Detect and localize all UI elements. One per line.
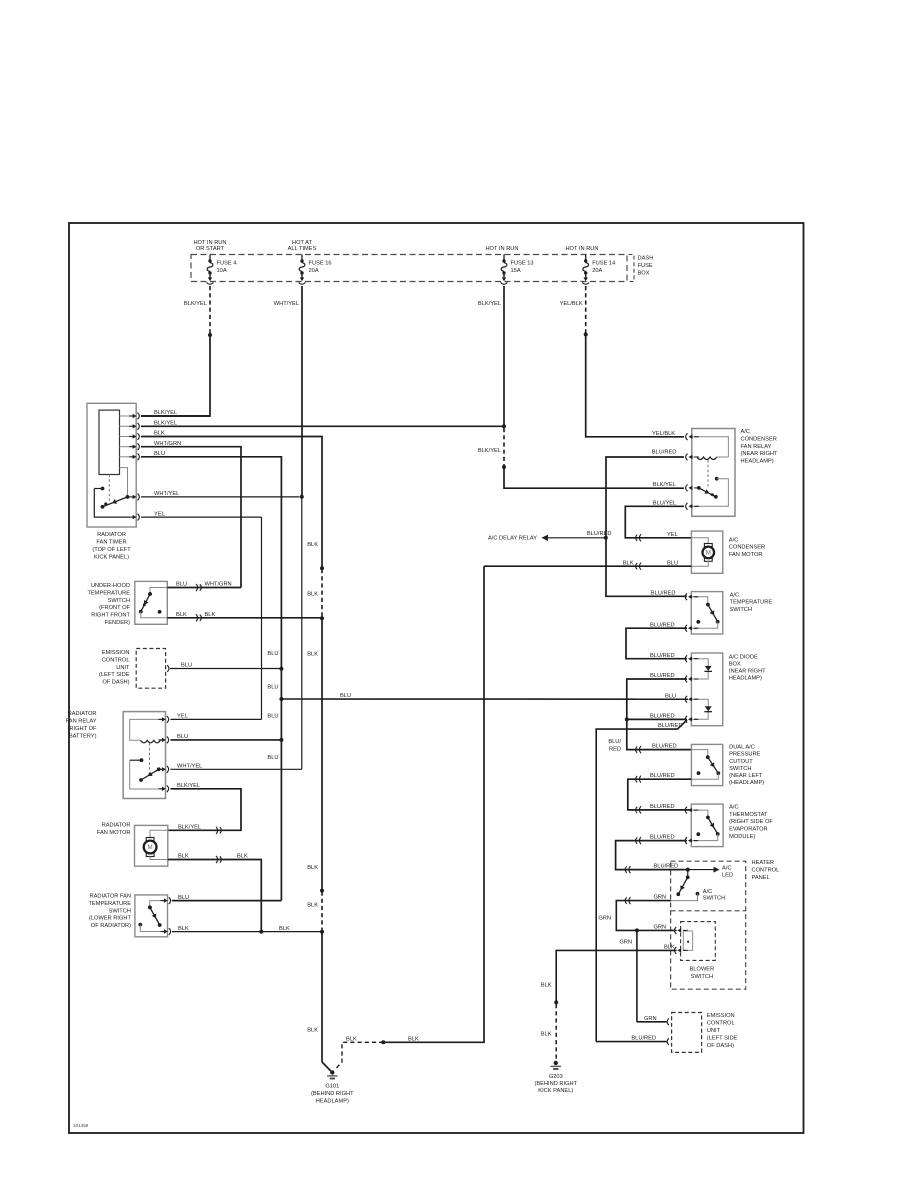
internal wire pin2 (691, 622, 717, 628)
wire BLU/RED to dual pressure switch (627, 719, 692, 749)
wire WHT/GRN pin4 down (141, 447, 241, 588)
svg-text:HEADLAMP): HEADLAMP) (729, 676, 762, 682)
svg-text:TEMPERATURE: TEMPERATURE (87, 590, 130, 596)
svg-text:FUSE 16: FUSE 16 (309, 261, 332, 267)
relay actuator dashed (149, 743, 151, 771)
A/C relay actuator dashed (707, 460, 709, 488)
internal wire (691, 750, 707, 756)
svg-text:OR START: OR START (196, 246, 225, 252)
relay coil (141, 740, 161, 743)
arrow to A/C LED (714, 867, 720, 873)
connector in GRN wire (625, 897, 630, 904)
wire BLU/RED relay pin2 to A/C temperature switch (606, 457, 687, 596)
svg-text:BLK/YEL: BLK/YEL (178, 825, 201, 831)
svg-text:BLK/YEL: BLK/YEL (478, 301, 501, 307)
junction WHT/YEL (300, 495, 304, 499)
dashed wire BLK to G101 (335, 1042, 384, 1070)
wire GRN to blower switch (637, 929, 677, 931)
svg-text:RADIATOR: RADIATOR (102, 823, 131, 829)
diode2 internal wire (691, 699, 708, 719)
radiator fan timer box (87, 403, 136, 527)
timer pin 4 (129, 443, 139, 450)
svg-text:WHT/GRN: WHT/GRN (154, 441, 181, 447)
svg-text:BLU/RED: BLU/RED (651, 590, 676, 596)
A/C temperature switch box (691, 592, 723, 634)
junction BLU to diode box (279, 697, 283, 701)
junction A/C LED tap (686, 868, 690, 872)
under-hood switch blade (139, 592, 152, 613)
fan relay pin 3 (159, 766, 169, 773)
svg-text:BOX: BOX (638, 270, 650, 276)
timer inner module (99, 410, 120, 474)
svg-text:HOT AT: HOT AT (292, 240, 313, 246)
svg-text:G203: G203 (549, 1074, 563, 1080)
svg-text:RADIATOR FAN: RADIATOR FAN (89, 894, 131, 900)
relay contact stub (130, 759, 140, 761)
arrow to A/C DELAY RELAY (542, 535, 549, 541)
svg-text:WHT/YEL: WHT/YEL (177, 764, 202, 770)
wire YEL/BLK dashed from fuse 14 (585, 286, 587, 333)
wire BLU/RED thermostat to heater panel (616, 841, 687, 870)
blower switch element (683, 931, 692, 950)
timer pin 1 (129, 413, 139, 420)
svg-text:15A: 15A (511, 268, 521, 274)
contact dot (138, 923, 142, 927)
svg-text:BLU: BLU (267, 755, 278, 761)
svg-text:GRN: GRN (654, 925, 667, 931)
wire BLK from fan motor (168, 860, 261, 932)
svg-text:EMISSION: EMISSION (102, 650, 130, 656)
svg-text:EVAPORATOR: EVAPORATOR (729, 827, 768, 833)
A/C relay pin 4 (686, 503, 699, 510)
connector (625, 866, 630, 873)
svg-text:BLU/YEL: BLU/YEL (653, 501, 676, 507)
svg-text:BLK: BLK (307, 542, 318, 548)
svg-text:HOT IN RUN: HOT IN RUN (565, 246, 598, 252)
A/C relay switch blade (697, 486, 718, 499)
svg-text:BLK: BLK (205, 612, 216, 618)
svg-text:PANEL: PANEL (752, 875, 770, 881)
svg-text:20A: 20A (592, 268, 602, 274)
svg-text:SWITCH: SWITCH (691, 974, 713, 980)
svg-text:RIGHT FRONT: RIGHT FRONT (91, 613, 130, 619)
wire GRN A/C switch out (616, 901, 671, 931)
svg-text:FENDER): FENDER) (105, 620, 130, 626)
svg-text:BLU: BLU (154, 451, 165, 457)
svg-text:OF DASH): OF DASH) (102, 680, 129, 686)
internal wire (691, 810, 708, 816)
svg-text:(NEAR RIGHT: (NEAR RIGHT (741, 451, 778, 457)
ECU1 pin cup (167, 665, 169, 672)
svg-text:CONDENSER: CONDENSER (729, 545, 765, 551)
svg-text:BLU/RED: BLU/RED (631, 1035, 656, 1041)
heater panel divider (dashed) (671, 910, 746, 912)
A/C switch contact (696, 892, 700, 896)
svg-text:SWITCH: SWITCH (108, 598, 130, 604)
svg-text:RED: RED (609, 747, 621, 753)
wire GRN into ECU (637, 1021, 667, 1023)
svg-text:BLU/RED: BLU/RED (650, 673, 675, 679)
svg-text:(RIGHT OF: (RIGHT OF (68, 726, 97, 732)
svg-text:BLK: BLK (307, 903, 318, 909)
wire BLU from trunk to A/C diode box pin3 (281, 698, 688, 700)
svg-text:MODULE): MODULE) (729, 834, 755, 840)
svg-text:(LEFT SIDE: (LEFT SIDE (99, 672, 130, 678)
wire BLU/RED to diode pin4 (627, 718, 687, 720)
wire BLK/YEL fuse4 to timer pin1 (141, 335, 210, 416)
svg-text:BLK: BLK (541, 983, 552, 989)
wire YEL pin7 (141, 516, 262, 518)
wire BLU/WHT-GRN from under-hood switch (167, 587, 241, 589)
wire BLK/YEL to A/C condenser fan relay pin3 (504, 467, 684, 488)
svg-text:HEADLAMP): HEADLAMP) (741, 459, 774, 465)
svg-text:BLU/: BLU/ (608, 739, 621, 745)
A/C relay pin 2 (686, 454, 699, 461)
svg-text:(LOWER RIGHT: (LOWER RIGHT (89, 916, 132, 922)
relay internal pin4 (692, 479, 729, 507)
fuse F4 10A (209, 255, 211, 260)
svg-text:BLU: BLU (177, 734, 188, 740)
svg-text:GRN: GRN (619, 939, 632, 945)
svg-text:BLK: BLK (307, 865, 318, 871)
ECU2 pin cups (667, 1019, 669, 1026)
svg-text:A/C DIODE: A/C DIODE (729, 655, 758, 661)
timer pin 3 (129, 433, 139, 440)
wire BLK dashed to G203 (555, 1004, 557, 1059)
svg-text:BLU: BLU (667, 560, 678, 566)
timer internal wires (120, 415, 131, 417)
diode D1 (704, 666, 712, 672)
diode box pin 1 (685, 655, 698, 662)
svg-text:UNIT: UNIT (707, 1028, 721, 1034)
A/C temp switch pin2 (685, 625, 698, 632)
svg-text:ALL TIMES: ALL TIMES (288, 246, 317, 252)
radiator fan motor symbol M (144, 838, 157, 857)
wire WHT/YEL relay pin3 (171, 768, 302, 770)
svg-text:THERMOSTAT: THERMOSTAT (729, 812, 768, 818)
wire BLU/RED diode pin4 to emission control unit (596, 720, 687, 1042)
svg-text:A/C: A/C (741, 429, 750, 435)
svg-text:YEL/BLK: YEL/BLK (652, 431, 675, 437)
svg-text:TEMPERATURE: TEMPERATURE (88, 901, 131, 907)
svg-text:SWITCH: SWITCH (729, 766, 751, 772)
splice dot (554, 1000, 558, 1004)
svg-text:(BEHIND RIGHT: (BEHIND RIGHT (534, 1081, 577, 1087)
relay switch blade (139, 767, 161, 782)
svg-text:CONTROL: CONTROL (102, 657, 130, 663)
svg-text:BLK/YEL: BLK/YEL (154, 421, 177, 427)
svg-text:M: M (148, 844, 153, 851)
svg-text:(LEFT SIDE: (LEFT SIDE (707, 1036, 738, 1042)
wire BLK/YEL relay pin4 to fan motor (168, 789, 241, 831)
svg-text:BLU: BLU (178, 895, 189, 901)
svg-text:BLK: BLK (279, 926, 290, 932)
svg-text:A/C: A/C (730, 593, 739, 599)
svg-text:A/C: A/C (722, 866, 731, 872)
svg-text:BLK: BLK (178, 926, 189, 932)
timer switch blade (101, 495, 130, 509)
connector (636, 806, 641, 813)
svg-text:GRN: GRN (644, 1016, 657, 1022)
under-hood temperature switch box (135, 581, 168, 624)
wire BLK/YEL dashed from fuse 4 (209, 286, 211, 333)
svg-text:BLK: BLK (237, 854, 248, 860)
svg-text:BLK: BLK (307, 652, 318, 658)
dual A/C pressure cutout switch box (691, 744, 722, 785)
ground G203 (551, 1061, 561, 1069)
svg-text:BLOWER: BLOWER (690, 966, 715, 972)
svg-text:BLU/RED: BLU/RED (658, 723, 683, 729)
svg-text:BLU/RED: BLU/RED (650, 773, 675, 779)
page border frame (69, 223, 804, 1133)
timer internal wire to pin6 (120, 468, 128, 497)
svg-text:UNIT: UNIT (116, 665, 130, 671)
wire WHT/YEL pin6 (141, 496, 300, 498)
heater control panel box (dashed) (671, 861, 746, 989)
diode box pin 3 (685, 696, 698, 703)
timer pin 2 (129, 423, 139, 430)
wire BLU from ECU to BLU trunk (170, 668, 281, 670)
svg-text:FUSE 14: FUSE 14 (592, 261, 615, 267)
svg-text:BLU: BLU (181, 663, 192, 669)
splice dot (381, 1040, 385, 1044)
svg-text:HOT IN RUN: HOT IN RUN (193, 240, 226, 246)
svg-text:BOX: BOX (729, 662, 741, 668)
svg-text:YEL: YEL (667, 532, 678, 538)
svg-text:RADIATOR: RADIATOR (68, 711, 97, 717)
dash fuse box (dashed) (191, 255, 627, 282)
contact dot (696, 620, 700, 624)
connector in BLU wire (196, 584, 201, 591)
junction BLU/fan relay (279, 738, 283, 742)
wire BLU/RED into ECU (596, 1041, 666, 1043)
svg-text:10A: 10A (217, 268, 227, 274)
wire BLU/RED pressure switch to thermostat (628, 779, 692, 810)
emission control unit box (dashed) (136, 649, 165, 689)
svg-text:SWITCH: SWITCH (703, 896, 725, 902)
svg-text:PRESSURE: PRESSURE (729, 752, 760, 758)
A/C thermostat box (691, 804, 723, 847)
contact dot (715, 477, 719, 481)
wire BLU temp switch to BLU trunk (172, 900, 281, 902)
svg-text:(NEAR LEFT: (NEAR LEFT (729, 773, 763, 779)
svg-text:BLU/RED: BLU/RED (587, 531, 612, 537)
junction BLU/ECU (279, 667, 283, 671)
junction fuse13/timer pin2 (502, 424, 506, 428)
pressure switch blade (706, 755, 720, 775)
svg-text:BATTERY): BATTERY) (69, 733, 97, 739)
svg-text:BLK: BLK (307, 591, 318, 597)
svg-text:(NEAR RIGHT: (NEAR RIGHT (729, 669, 766, 675)
connector (636, 776, 641, 783)
fuse F14 20A (585, 255, 587, 260)
wire BLK from blower switch to G203 (556, 950, 676, 1001)
wire WHT/YEL trunk down to fan relay (301, 497, 303, 770)
connector in BLU wire (636, 563, 641, 570)
svg-text:YEL: YEL (177, 714, 188, 720)
temp switch internal wire pin2 (140, 925, 167, 932)
A/C relay coil (697, 457, 717, 460)
thermostat blade (706, 816, 720, 836)
A/C switch blade (676, 875, 689, 896)
junction BLU/RED delay relay tap (604, 536, 608, 540)
svg-text:OF DASH): OF DASH) (707, 1043, 734, 1049)
svg-text:BLU/RED: BLU/RED (650, 713, 675, 719)
wire BLU/RED diode pin2 down (627, 679, 687, 719)
BLK trunk with dashed splice segments (320, 566, 324, 570)
svg-text:FAN MOTOR: FAN MOTOR (97, 830, 131, 836)
svg-text:BLK/YEL: BLK/YEL (478, 448, 501, 454)
splice dot fuse4 wire (208, 333, 212, 337)
temp switch blade (148, 906, 162, 927)
svg-text:BLU: BLU (665, 693, 676, 699)
svg-text:BLU/RED: BLU/RED (650, 835, 675, 841)
blower switch pin GRN (674, 927, 687, 934)
connector in BLK wire (216, 856, 221, 863)
svg-text:FAN RELAY: FAN RELAY (66, 719, 97, 725)
internal wire pin2 (691, 773, 718, 779)
svg-text:TEMPERATURE: TEMPERATURE (730, 600, 773, 606)
A/C switch internal wire (671, 894, 698, 901)
svg-text:CONDENSER: CONDENSER (741, 436, 777, 442)
relay coil wire (130, 719, 166, 740)
svg-text:SWITCH: SWITCH (730, 607, 752, 613)
wire BLU/RED to A/C delay relay (548, 537, 606, 539)
svg-text:BLK: BLK (154, 431, 165, 437)
connector in YEL wire (636, 534, 641, 541)
svg-text:BLK: BLK (408, 1036, 419, 1042)
emission control unit box (dashed) (672, 1013, 702, 1053)
contact dot (696, 832, 700, 836)
A/C relay pin 1 (686, 433, 699, 440)
thermostat pin2 (685, 837, 698, 844)
timer pin 5 (129, 453, 139, 460)
switch internal wire to BLK pin (141, 612, 168, 618)
timer switch contact stub (94, 488, 101, 490)
svg-text:FAN RELAY: FAN RELAY (741, 444, 772, 450)
relay internal pin1 (692, 437, 729, 457)
timer actuator dashed (108, 475, 110, 501)
svg-text:OF RADIATOR): OF RADIATOR) (91, 923, 131, 929)
wire BLU relay pin2 (171, 739, 282, 741)
thermostat pin1 (685, 807, 698, 814)
diode box pin 2 (685, 676, 698, 683)
internal wire (691, 597, 708, 603)
svg-text:FUSE 4: FUSE 4 (217, 261, 237, 267)
diode1 internal wire (691, 659, 708, 679)
svg-text:BLK: BLK (664, 945, 675, 951)
svg-text:BLU: BLU (267, 685, 278, 691)
blower switch box (dashed) (681, 922, 716, 961)
svg-text:20A: 20A (309, 268, 319, 274)
svg-text:HEADLAMP): HEADLAMP) (316, 1098, 349, 1104)
diode D2 (704, 706, 712, 712)
wire YEL relay pin1 (171, 718, 262, 720)
svg-text:FUSE: FUSE (638, 263, 653, 269)
connector in BLU/RED wire (636, 746, 641, 753)
svg-text:GRN: GRN (598, 916, 611, 922)
svg-text:RADIATOR: RADIATOR (97, 532, 126, 538)
svg-text:BLK/YEL: BLK/YEL (184, 301, 207, 307)
temp switch internal wire (150, 901, 168, 906)
wire BLK from under-hood switch to BLK trunk (167, 617, 322, 619)
wire BLK/YEL dashed segment (503, 428, 505, 466)
diode box pin 4 (685, 716, 698, 723)
svg-text:BLK/YEL: BLK/YEL (177, 783, 200, 789)
junction GRN (635, 928, 639, 932)
fan relay pin 1 (159, 716, 169, 723)
splice dot (502, 465, 506, 469)
wire BLU/YEL relay pin4 to condenser fan motor (625, 506, 691, 538)
svg-text:BLU/RED: BLU/RED (650, 622, 675, 628)
svg-text:101459: 101459 (73, 1123, 89, 1128)
dash fuse box label bracket (629, 255, 635, 282)
temp switch pin BLU (161, 897, 171, 904)
A/C temp switch blade (706, 603, 720, 624)
svg-text:BLK: BLK (623, 560, 634, 566)
fuse F16 20A (301, 255, 303, 260)
svg-text:GRN: GRN (654, 895, 667, 901)
A/C relay pin 3 (686, 485, 699, 492)
svg-text:FAN TIMER: FAN TIMER (96, 540, 126, 546)
junction BLK motor/switch (259, 930, 263, 934)
svg-text:A/C DELAY RELAY: A/C DELAY RELAY (488, 535, 537, 541)
svg-text:BLK: BLK (346, 1036, 357, 1042)
A/C diode box (691, 653, 722, 726)
junction BLU/RED (625, 717, 629, 721)
connector in BLK wire (196, 614, 201, 621)
radiator fan relay box (123, 712, 165, 799)
internal wire pin2 (691, 834, 717, 841)
svg-text:BLK: BLK (176, 612, 187, 618)
wire BLU/RED temp switch to diode box (626, 628, 687, 659)
motor internal wire top (150, 830, 168, 838)
svg-text:UNDER-HOOD: UNDER-HOOD (91, 583, 130, 589)
motor internal wire bottom (150, 856, 168, 859)
svg-text:BLU: BLU (340, 693, 351, 699)
A/C temp switch pin1 (685, 593, 698, 600)
svg-text:A/C: A/C (729, 537, 738, 543)
connector (636, 837, 641, 844)
svg-text:YEL: YEL (154, 511, 165, 517)
fan relay pin 2 (159, 737, 169, 744)
temp switch pin BLK (161, 928, 171, 935)
svg-text:BLU: BLU (267, 714, 278, 720)
svg-text:KICK PANEL): KICK PANEL) (94, 554, 129, 560)
svg-text:BLK/YEL: BLK/YEL (154, 410, 177, 416)
relay internal wire pin4 (130, 760, 166, 789)
svg-text:BLK: BLK (178, 854, 189, 860)
svg-text:FAN MOTOR: FAN MOTOR (729, 552, 763, 558)
wire BLK temp switch to trunk (172, 931, 322, 933)
svg-text:HEATER: HEATER (752, 860, 775, 866)
timer internal wire to pin7 (94, 489, 130, 518)
svg-text:BLU: BLU (176, 582, 187, 588)
svg-text:YEL/BLK: YEL/BLK (560, 301, 583, 307)
svg-text:BLU/RED: BLU/RED (652, 450, 677, 456)
svg-text:A/C: A/C (703, 889, 712, 895)
svg-text:A/C: A/C (729, 805, 738, 811)
wire BLU pin5 = BLU trunk (141, 457, 281, 901)
wire WHT/YEL from fuse 16 down (301, 286, 303, 497)
svg-text:(BEHIND RIGHT: (BEHIND RIGHT (311, 1091, 354, 1097)
switch contact dot (158, 610, 162, 614)
fan relay pin 4 (159, 785, 169, 792)
svg-text:SWITCH: SWITCH (109, 908, 131, 914)
timer pin 7 (129, 514, 139, 521)
fuse F13 15A (503, 255, 505, 260)
svg-text:(HEADLAMP): (HEADLAMP) (729, 780, 764, 786)
